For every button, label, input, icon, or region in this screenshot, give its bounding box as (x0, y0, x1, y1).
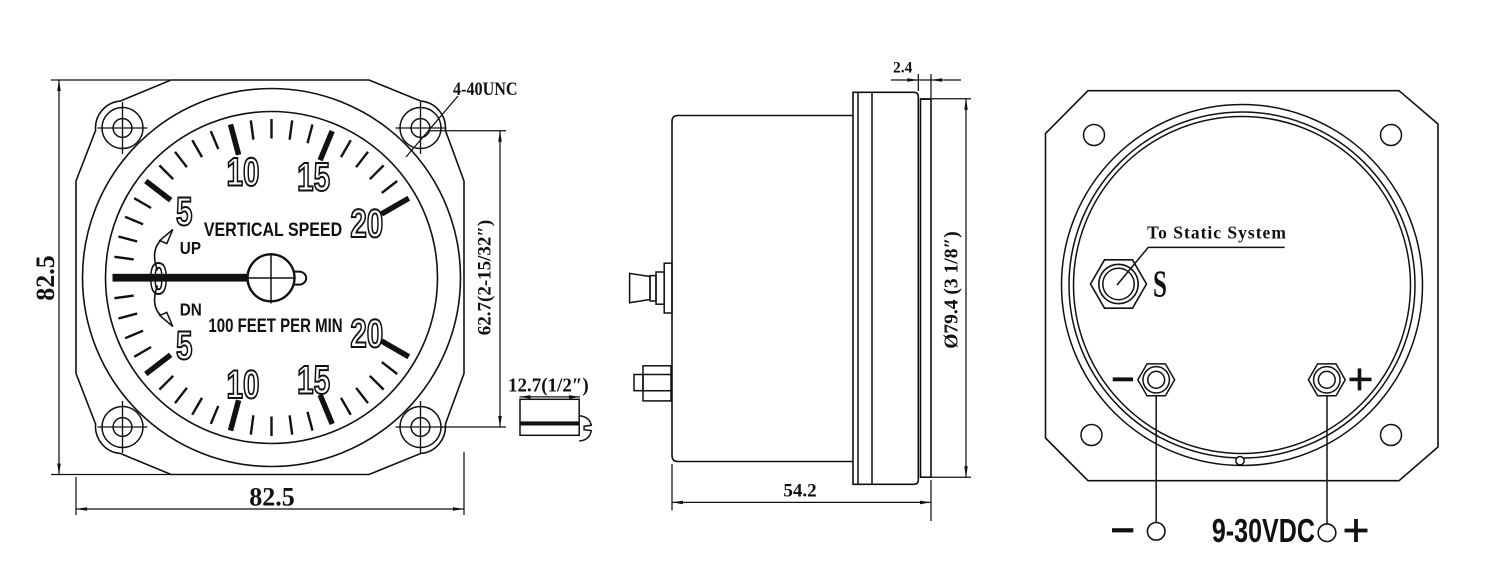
label 9-30VDC (1212, 513, 1315, 550)
dial label UP (180, 238, 201, 258)
dimension diameter 79.4 (3 1/8") (920, 99, 971, 478)
minus wire (1155, 396, 1157, 523)
svg-text:20: 20 (350, 312, 383, 356)
svg-text:UP: UP (180, 238, 201, 258)
plus sign at terminal (1350, 378, 1372, 382)
static port S hex fitting (1091, 260, 1147, 308)
svg-text:15: 15 (297, 155, 330, 199)
rear view: can circles (1062, 105, 1423, 466)
front view: outer bezel circle (83, 89, 461, 467)
front mounting screw hole 1 (98, 102, 148, 154)
svg-text:10: 10 (227, 150, 260, 194)
svg-text:S: S (1153, 262, 1167, 304)
side view: instrument body can (672, 116, 853, 462)
svg-text:DN: DN (180, 299, 202, 319)
svg-text:15: 15 (297, 358, 330, 402)
svg-text:10: 10 (227, 363, 260, 407)
front mounting screw hole 2 (396, 102, 446, 154)
bottom plus sign (1345, 529, 1368, 533)
side view: bezel/flange stack (853, 92, 918, 484)
front view: inner dial circle (106, 112, 438, 444)
screw detail body (520, 399, 591, 441)
svg-text:4-40UNC: 4-40UNC (453, 78, 518, 100)
rear mounting hole 3 (1081, 425, 1102, 446)
rear mounting hole 1 (1084, 125, 1105, 146)
plus terminal hex (1308, 364, 1345, 396)
dimension 62.7(2-15/32") right vertical (430, 131, 506, 427)
front mounting screw hole 4 (396, 401, 446, 453)
hub side tab (290, 272, 306, 285)
side view: front ring (2.4 thick) (921, 99, 932, 477)
hub crosshair (249, 253, 294, 304)
rear mounting hole 4 (1381, 425, 1402, 446)
dial numerals (149, 150, 383, 407)
svg-text:82.5: 82.5 (249, 483, 295, 512)
svg-text:20: 20 (350, 202, 383, 246)
svg-text:VERTICAL SPEED: VERTICAL SPEED (204, 218, 342, 240)
leader to static system (1117, 247, 1285, 285)
minus terminal hex (1138, 364, 1175, 396)
svg-text:62.7(2-15/32″): 62.7(2-15/32″) (475, 220, 496, 336)
UP curved arrow (155, 239, 163, 271)
rear mounting hole 2 (1381, 125, 1402, 146)
dial label 100 FEET PER MIN (208, 315, 342, 336)
front view: square bezel plate outline (76, 80, 464, 475)
svg-text:12.7(1/2″): 12.7(1/2″) (508, 375, 589, 397)
side view: terminal stud (634, 366, 671, 401)
side view: static port fitting (630, 263, 672, 313)
svg-text:5: 5 (176, 324, 192, 368)
label 4-40UNC with leader (453, 78, 518, 100)
label S (1153, 262, 1167, 304)
svg-text:Ø79.4 (3 1/8″): Ø79.4 (3 1/8″) (942, 231, 963, 348)
svg-text:82.5: 82.5 (31, 255, 60, 301)
svg-text:54.2: 54.2 (783, 481, 816, 502)
svg-text:9-30VDC: 9-30VDC (1212, 513, 1315, 550)
svg-text:5: 5 (176, 190, 192, 234)
rear view: plate outline (chamfered octagon) (1046, 91, 1439, 481)
dial label DN (180, 299, 202, 319)
dimension 54.2 (bottom) (672, 464, 931, 521)
dial tick marks (114, 119, 408, 436)
dimension 82.5 (bottom horizontal) (76, 452, 464, 515)
dimension 82.5 (left vertical) (51, 80, 171, 475)
minus sign at terminal (1113, 377, 1133, 381)
svg-text:2.4: 2.4 (893, 60, 913, 77)
needle pointing to 0 (113, 274, 261, 282)
screw detail dimension line (520, 396, 581, 398)
DN curved arrow (155, 286, 163, 318)
svg-text:To Static System: To Static System (1147, 223, 1287, 243)
dimension 2.4 (top) (891, 74, 961, 98)
dial label VERTICAL SPEED (204, 218, 342, 240)
svg-text:100 FEET PER MIN: 100 FEET PER MIN (208, 315, 342, 336)
rear drain hole (1236, 457, 1244, 465)
bottom minus sign (1112, 528, 1133, 532)
screw detail 12.7(1/2") label (508, 375, 589, 397)
front mounting screw hole 3 (98, 401, 148, 453)
center hub (248, 254, 295, 301)
plus wire (1326, 396, 1328, 524)
